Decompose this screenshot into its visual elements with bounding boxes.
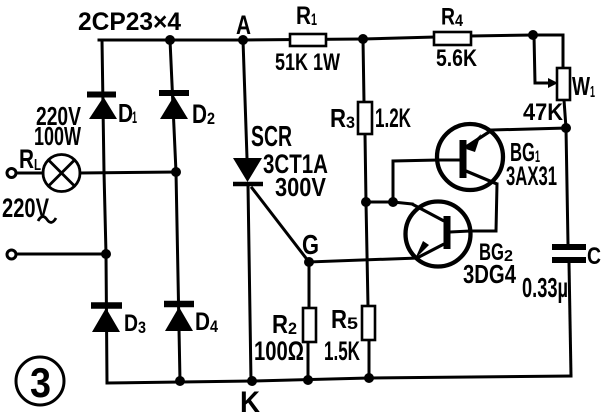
node R2 bottom: [303, 375, 313, 385]
wire R3 leg top: [363, 39, 364, 102]
node R3 top: [358, 34, 368, 44]
svg-text:51K 1W: 51K 1W: [275, 49, 340, 76]
svg-text:1: 1: [590, 84, 595, 101]
node D2 top: [165, 35, 175, 45]
wire G to BG2 emitter: [309, 258, 417, 262]
resistor R2: [303, 308, 316, 342]
svg-text:A: A: [236, 10, 251, 40]
wire BG1 collector to BG2 base: [470, 184, 497, 231]
svg-text:W: W: [572, 71, 590, 101]
wire R3 bottom to R5: [365, 134, 368, 306]
wire R5 bottom: [368, 340, 371, 378]
terminal upper: [7, 169, 16, 178]
node K: [247, 376, 257, 386]
node G: [304, 257, 314, 267]
node lower terminal: [101, 249, 111, 259]
svg-text:R: R: [441, 4, 455, 31]
wire right leg W1 to C: [564, 100, 568, 244]
wire left leg: [102, 40, 107, 383]
wire R2 bottom: [307, 342, 310, 380]
terminal lower: [7, 250, 16, 259]
wire C bottom to rail: [569, 263, 571, 376]
svg-text:47K: 47K: [523, 99, 564, 126]
diode D3: [91, 306, 122, 333]
svg-text:R: R: [331, 304, 347, 334]
node A: [238, 35, 248, 45]
wire lamp to bridge: [16, 172, 43, 175]
svg-text:2CP23×4: 2CP23×4: [78, 8, 181, 36]
svg-text:C: C: [587, 243, 601, 270]
svg-text:100W: 100W: [34, 121, 81, 151]
svg-text:5: 5: [347, 314, 358, 333]
tilde of 220V~: [38, 217, 56, 223]
node W1 branch: [528, 30, 538, 40]
svg-text:1: 1: [311, 10, 317, 29]
resistor R5: [362, 306, 375, 340]
svg-text:K: K: [240, 386, 260, 417]
svg-text:D: D: [192, 99, 207, 129]
svg-text:R: R: [296, 2, 311, 30]
svg-text:5.6K: 5.6K: [436, 45, 478, 72]
wire SCR cathode to K: [248, 185, 251, 381]
resistor R1: [290, 34, 326, 46]
svg-text:R: R: [19, 144, 34, 174]
transistor BG1: [437, 124, 503, 190]
capacitor C: [552, 247, 586, 260]
svg-text:220V: 220V: [2, 193, 49, 223]
svg-text:D: D: [195, 308, 210, 336]
wire top rail right: [471, 35, 563, 68]
node BG1 base: [388, 197, 398, 207]
svg-text:3: 3: [30, 359, 51, 406]
wire lower terminal: [16, 253, 106, 256]
transistor BG2: [406, 202, 471, 267]
svg-text:1.5K: 1.5K: [324, 336, 360, 366]
svg-text:R: R: [272, 309, 288, 339]
node lamp-D2: [171, 167, 181, 177]
svg-text:1.2K: 1.2K: [375, 103, 411, 133]
svg-text:D: D: [124, 310, 138, 337]
svg-text:4: 4: [210, 317, 218, 336]
node R5 bottom: [364, 373, 374, 383]
wire BG1 base: [393, 160, 437, 202]
wire SCR gate diagonal: [252, 188, 309, 262]
svg-text:3: 3: [346, 113, 355, 132]
svg-text:L: L: [34, 157, 41, 174]
wire G to R2: [308, 262, 311, 308]
lamp RL: [43, 155, 80, 192]
resistor R4: [434, 32, 471, 45]
svg-text:3AX31: 3AX31: [506, 161, 557, 191]
wire BG1 emitter to 47K node: [492, 128, 566, 130]
svg-text:G: G: [302, 229, 319, 260]
SCR U1: [233, 158, 263, 184]
wire junction to BG2 collector: [366, 202, 412, 204]
wire SCR leg: [243, 40, 247, 158]
svg-text:1: 1: [132, 108, 137, 127]
svg-text:R: R: [330, 103, 346, 133]
svg-text:100Ω: 100Ω: [254, 336, 304, 366]
node R3 bottom: [361, 197, 371, 207]
svg-text:3: 3: [138, 318, 146, 337]
wire W1 wiper branch: [534, 35, 549, 83]
node D4 bottom: [175, 376, 185, 386]
svg-text:300V: 300V: [275, 172, 327, 202]
svg-text:2: 2: [207, 109, 215, 128]
wire top rail: [99, 37, 434, 40]
diode D1: [87, 95, 117, 120]
wire D2/D4 leg: [170, 40, 180, 381]
svg-text:3DG4: 3DG4: [463, 259, 516, 289]
potentiometer W1: [548, 68, 570, 100]
diode D4: [164, 304, 194, 331]
wire lamp right: [80, 172, 176, 173]
node 47K: [561, 123, 571, 133]
svg-text:0.33µ: 0.33µ: [522, 272, 568, 303]
svg-text:4: 4: [455, 11, 463, 30]
diode D2: [159, 93, 189, 119]
svg-text:D: D: [118, 98, 133, 128]
figure number 3: [16, 357, 64, 406]
resistor R3: [358, 102, 372, 134]
wire bottom rail: [107, 376, 571, 383]
